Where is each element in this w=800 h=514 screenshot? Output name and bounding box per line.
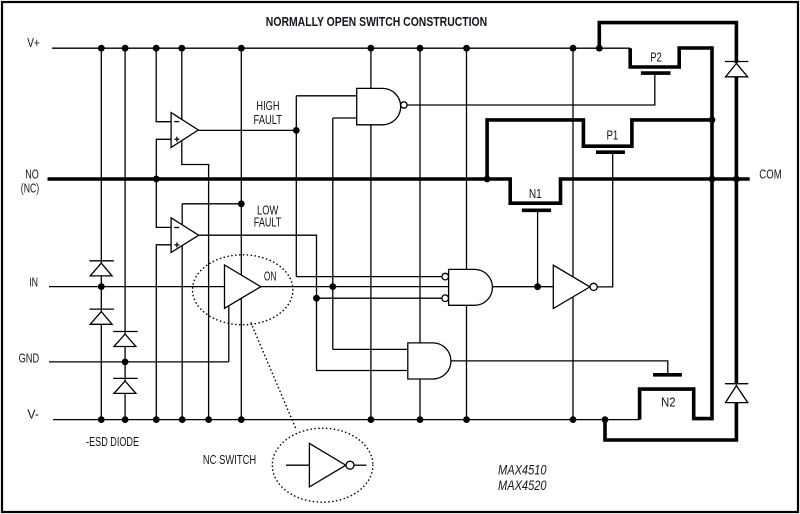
transistor P1 gate bar: [596, 150, 625, 154]
wire V+ ESD loop (V+ rail up and over to diode D5): [599, 23, 736, 63]
transistor N2 channel (source from V- rail, drain to COM column): [640, 389, 712, 420]
diode D6 (V- to COM ESD diode): [725, 384, 748, 403]
svg-text:HIGH: HIGH: [256, 98, 279, 113]
svg-text:P2: P2: [650, 49, 662, 64]
wire ON buffer ground pin: [228, 306, 230, 362]
wire pass column V+ to V- at x=466.5: [466, 48, 468, 419]
wire V+ rail: [52, 47, 630, 49]
junction dot ON node: [329, 283, 336, 290]
svg-text:MAX4520: MAX4520: [498, 477, 547, 493]
pin plus U2: [174, 242, 179, 247]
diode D3 (upper ESD diode at x=125): [113, 332, 138, 347]
svg-text:NC SWITCH: NC SWITCH: [203, 452, 256, 467]
junction dots on V+ rail: [98, 45, 603, 52]
wire ON node (buffer output to gate U5 middle input): [261, 286, 449, 288]
junction dot GND line: [122, 359, 129, 366]
wire NAND U4 lower input riser from ON node: [332, 118, 334, 349]
junction dot P1 drain / P2 column: [709, 117, 716, 124]
label HIGH FAULT: [254, 98, 283, 127]
wire comparator U1 inverting input from V+: [156, 48, 171, 122]
wire diode column to COM line: [735, 77, 739, 385]
transistor P2 gate bar: [641, 71, 671, 75]
wire AND U6 output to N2 gate: [451, 361, 668, 374]
wire N1 gate riser: [537, 211, 539, 287]
wire NAND U4 output to P2 gate: [407, 74, 655, 105]
op-amp U2 (LOW FAULT comparator): [171, 218, 199, 253]
wire ESD column 2 (V+ to V- through diodes at x=125): [124, 48, 126, 419]
wire NO (NC) switch line through N1 channel to COM: [48, 179, 750, 203]
junction dot N1 gate node: [534, 283, 541, 290]
svg-text:COM: COM: [759, 167, 781, 182]
gate U6 (AND): [408, 343, 451, 379]
wire U2 output to gate U5 lower input and AND U6 lower input: [199, 235, 408, 370]
wire U5 output to inverter U7 input: [492, 286, 553, 288]
svg-text:FAULT: FAULT: [254, 112, 283, 127]
gate U5 (AND with inverted inputs): [449, 269, 493, 305]
wire U2 supply drop (LOW FAULT node through U2 body to V- rail): [181, 204, 183, 420]
svg-text:GND: GND: [19, 350, 40, 365]
svg-text:-ESD DIODE: -ESD DIODE: [86, 434, 139, 449]
node NC switch ellipse (dotted): [272, 428, 373, 502]
junction dots on V- rail: [98, 416, 608, 423]
wire ESD column 1 (V+ to V- through diodes at x=101): [100, 48, 102, 419]
svg-text:V+: V+: [27, 35, 40, 50]
wire comparator U2 noninverting input from V-: [156, 245, 171, 420]
svg-text:V-: V-: [27, 406, 39, 421]
svg-text:(NC): (NC): [21, 180, 39, 195]
node ON switch ellipse (dotted): [193, 255, 293, 325]
wire U7 output to P1 gate: [597, 153, 612, 287]
svg-text:IN: IN: [29, 274, 38, 289]
pin minus U1: [174, 121, 179, 123]
diode D1 (NO to IN ESD diode): [89, 261, 114, 276]
diode D5 (COM to V+ ESD diode): [725, 62, 748, 77]
svg-text:NORMALLY OPEN SWITCH CONSTRUCT: NORMALLY OPEN SWITCH CONSTRUCTION: [266, 15, 487, 29]
diode D4 (GND to V- ESD diode): [113, 378, 138, 393]
transistor P2 channel (source from V+ rail): [630, 48, 712, 67]
wire pass column V+ to V- at x=573: [572, 48, 574, 419]
wire U5 upper bubble input (HIGH FAULT): [296, 276, 442, 278]
diode D2 (IN to GND ESD diode): [89, 309, 114, 324]
transistor P1 channel (source from NO node, drain to COM column): [487, 120, 712, 179]
wire V- rail: [53, 419, 640, 421]
svg-text:N1: N1: [529, 186, 542, 201]
wire pass column V+ to V- at x=420: [419, 48, 421, 419]
wire GND line: [49, 361, 229, 363]
NC switch inverter: [286, 443, 367, 487]
wire bias column (V+ to V- at x=241 through LOW FAULT node): [240, 48, 242, 419]
wire dotted connector between ellipses: [251, 323, 296, 429]
svg-text:ON: ON: [264, 268, 277, 283]
wire pass column V+ to V- at x=371: [370, 48, 372, 419]
wire NAND U4 lower input horizontal: [333, 117, 357, 119]
junction dots on NO line: [153, 176, 740, 183]
wire IN line: [49, 286, 225, 288]
svg-text:P1: P1: [607, 128, 619, 143]
pin minus U2: [174, 227, 179, 229]
junction dot U2 output branch: [313, 295, 320, 302]
transistor N1 gate bar: [522, 209, 551, 213]
label LOW FAULT: [254, 202, 282, 229]
wire AND U6 upper input horizontal: [333, 348, 408, 350]
wire P2/P1/N2 drain column to COM: [710, 46, 714, 420]
wire HIGH FAULT vertical riser: [295, 96, 297, 277]
wire U1 supply drop (V+ through U1 body, jog to V- rail): [182, 48, 209, 419]
node HIGH FAULT junction dot: [293, 127, 300, 134]
svg-text:MAX4510: MAX4510: [498, 461, 547, 477]
wire U1 output (HIGH FAULT node): [198, 129, 296, 131]
svg-text:FAULT: FAULT: [254, 215, 282, 230]
junction dot IN line: [98, 283, 105, 290]
wire comparator U1 noninverting input to NO node and U2 inverting input: [156, 139, 171, 227]
transistor N2 gate bar: [653, 373, 682, 377]
node LOW FAULT junction dot: [238, 200, 245, 207]
pin plus U1: [174, 137, 179, 142]
wire NAND U4 upper input: [296, 95, 356, 97]
op-amp U1 (HIGH FAULT comparator): [171, 113, 198, 148]
wire U5 lower bubble input branch: [317, 297, 442, 299]
svg-text:N2: N2: [661, 394, 676, 409]
buffer U3 (ON buffer): [225, 265, 261, 308]
inverter U7: [553, 265, 590, 308]
wire V- ESD loop (V- rail down and over to diode D6): [605, 403, 736, 440]
gate U4 (NAND): [357, 88, 401, 124]
wire LOW FAULT node horizontal: [182, 203, 241, 205]
